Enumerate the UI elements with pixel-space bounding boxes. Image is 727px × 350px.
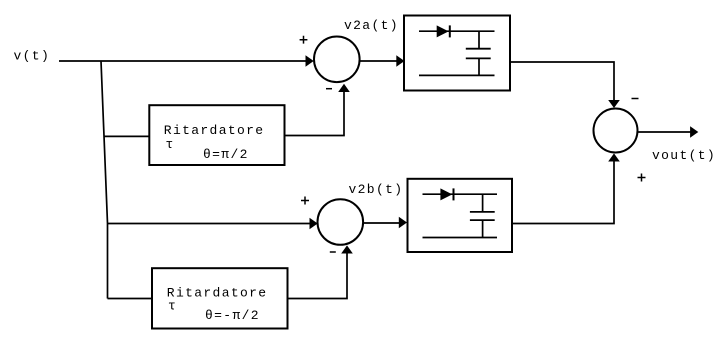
wire delay 2 output to summer S2 minus [288, 254, 348, 299]
diode D2 cathode bar [453, 188, 455, 200]
capacitor C1 plate top [466, 48, 491, 50]
wire branch vertical [101, 61, 108, 299]
plus sign at S1 [300, 36, 308, 44]
minus sign at S1 [326, 88, 332, 90]
wire summer S1 to rectifier 1 [360, 60, 398, 62]
plus sign at S3 [638, 174, 646, 182]
minus sign at S3 [632, 98, 639, 100]
rectifier block 2 [408, 179, 513, 252]
wire branch to summer S2 [108, 223, 311, 225]
svg-text:v(t): v(t) [14, 49, 51, 64]
wire main input [59, 60, 306, 62]
rectifier 2 bottom wire [423, 237, 498, 239]
capacitor C1 lead top [478, 31, 480, 48]
svg-text:θ=π/2: θ=π/2 [203, 147, 249, 162]
svg-text:Ritardatore: Ritardatore [164, 123, 265, 138]
capacitor C2 plate top [470, 211, 495, 213]
svg-text:v2b(t): v2b(t) [349, 182, 404, 197]
capacitor C2 plate bottom [470, 219, 495, 221]
arrow into summer S1 left [306, 55, 314, 67]
arrow into rectifier 1 [396, 55, 404, 67]
wire bottom branch to delay 2 [108, 298, 154, 300]
arrow into summer S1 bottom [338, 84, 350, 92]
minus sign at S2 [330, 251, 336, 253]
summer S1 [314, 37, 360, 83]
wire summer S2 to rectifier 2 [363, 222, 400, 224]
wire rectifier 1 to output summer minus [510, 62, 614, 100]
arrow output vout [690, 126, 698, 138]
delay block Ritardatore 1 [149, 105, 284, 165]
wire branch to delay 1 [104, 135, 150, 137]
arrow into summer S2 bottom [341, 245, 353, 253]
diode D1 cathode bar [449, 25, 451, 37]
arrow into output summer top [608, 100, 620, 108]
svg-text:τ: τ [168, 298, 177, 313]
summer S2 [318, 199, 364, 245]
wire output [638, 131, 691, 133]
arrow into output summer bottom [608, 153, 620, 161]
svg-text:v2a(t): v2a(t) [344, 18, 399, 33]
wire delay 1 output to summer S1 minus [285, 92, 345, 136]
svg-text:τ: τ [166, 137, 175, 152]
diode D1 [437, 25, 449, 37]
rectifier block 1 [404, 16, 510, 91]
capacitor C2 lead bottom [482, 220, 484, 237]
capacitor C1 lead bottom [478, 58, 480, 75]
rectifier 1 top wire [419, 30, 495, 32]
svg-text:vout(t): vout(t) [652, 148, 716, 163]
capacitor C1 plate bottom [466, 57, 491, 59]
rectifier 1 bottom wire [419, 74, 495, 76]
arrow into summer S2 left [310, 218, 318, 230]
diode D2 [440, 188, 452, 200]
output summer S3 [594, 109, 638, 153]
svg-text:Ritardatore: Ritardatore [167, 286, 268, 301]
plus sign at S2 [301, 197, 309, 205]
capacitor C2 lead top [482, 194, 484, 211]
arrow into rectifier 2 [399, 217, 407, 229]
svg-text:θ=-π/2: θ=-π/2 [205, 308, 260, 323]
delay block Ritardatore 2 [152, 268, 288, 328]
rectifier 2 top wire [423, 193, 498, 195]
wire rectifier 2 to output summer plus [512, 162, 614, 224]
